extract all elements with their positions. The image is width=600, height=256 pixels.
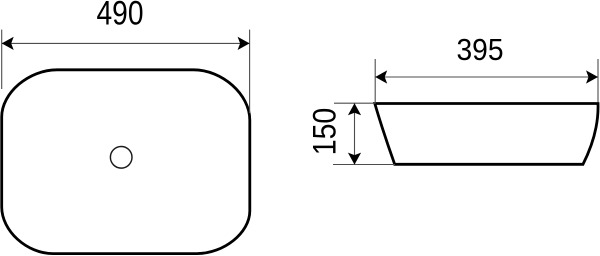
basin top view outline [2, 70, 250, 254]
arrow down (150) [348, 153, 361, 165]
arrow right (395) [586, 70, 598, 83]
dimension line 150 [354, 103, 356, 164]
basin side view outline [375, 104, 598, 165]
extension line top (150) [334, 102, 376, 104]
svg-text:150: 150 [306, 108, 342, 156]
arrow left (490) [2, 37, 14, 50]
svg-text:490: 490 [97, 0, 144, 33]
extension line left (490) [1, 30, 3, 89]
extension line left (395) [374, 59, 376, 104]
arrow right (490) [238, 37, 250, 50]
extension line right (490) [249, 30, 251, 113]
drain hole circle [110, 147, 132, 169]
svg-text:395: 395 [457, 32, 504, 67]
arrow up (150) [348, 103, 361, 115]
extension line bottom (150) [333, 164, 395, 166]
extension line right (395) [597, 59, 599, 102]
dimension line 395 [375, 76, 598, 78]
arrow left (395) [375, 70, 387, 83]
dimension line 490 [2, 42, 250, 44]
